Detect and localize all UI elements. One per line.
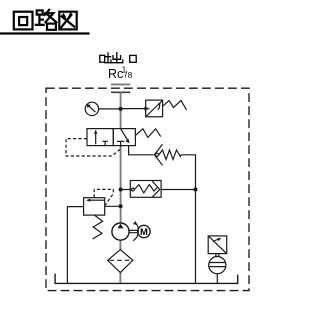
relief valve RV (left, box with left arrow and spring) <box>84 198 105 215</box>
wire: filter to tank <box>119 273 121 284</box>
wire: relief valve inlet from main line <box>105 205 121 207</box>
pilot dashed line of valve SV <box>66 139 121 156</box>
label Rc1/8 <box>108 66 133 82</box>
wire: main line to back-pressure valve <box>121 189 131 191</box>
pilot/vent dashed line of relief valve RV <box>94 189 113 205</box>
node: junction main line / back-pressure valve <box>119 188 123 192</box>
node: junction right drop line <box>194 188 198 192</box>
口 <box>130 55 137 62</box>
wire: gauge assembly to tank <box>216 274 218 284</box>
svg-text:M: M <box>140 227 148 238</box>
tank line <box>55 274 238 284</box>
relief valve V1 (top right, box with diagonal arrow) <box>146 100 163 117</box>
electric motor M1 <box>138 225 150 238</box>
図 <box>59 12 76 30</box>
level gauge LG (box with diagonal) <box>208 236 227 254</box>
node: junction relief inlet <box>119 204 123 208</box>
wire: back-pressure valve outlet to right drop line <box>161 189 195 191</box>
吐 <box>100 53 112 63</box>
left box: flow arrow up <box>95 132 97 145</box>
spring of valve SV (right side) <box>136 129 161 138</box>
thermometer TG (circle with two lines) <box>209 254 226 274</box>
spring of relief valve V1 <box>163 101 186 111</box>
spring of check valve CV1 <box>159 150 181 159</box>
right box: blocked port T <box>117 141 124 147</box>
title 回路図 (kanji drawn as strokes) <box>14 10 77 30</box>
wire: main pressure line (port to valve) <box>120 92 122 129</box>
spring of relief valve RV <box>93 215 103 239</box>
arrowhead into relief box <box>144 107 150 111</box>
wire: check valve to right drop line <box>181 155 195 284</box>
路 <box>36 10 57 30</box>
rotation direction arrow <box>133 223 138 241</box>
wire: pump to filter <box>119 240 121 250</box>
wire: valve outlet down-right to check valve <box>129 146 154 155</box>
wire: main line to relief box (top right) <box>121 108 145 110</box>
check valve CV1 (ball and seat with spring) <box>154 144 162 165</box>
wire: gauge to main line <box>99 108 121 110</box>
出 <box>111 53 123 63</box>
back-pressure check valve CV2 (boxed spring poppet) <box>130 181 161 198</box>
wire: relief valve drain to tank <box>67 207 83 284</box>
svg-text:8: 8 <box>128 71 133 80</box>
回 <box>14 12 33 30</box>
pump P1 (fixed displacement) <box>112 223 129 240</box>
right box: diagonal flow arrow <box>121 129 129 141</box>
valve body right box <box>113 129 135 146</box>
title underline <box>0 32 90 34</box>
valve body left box <box>87 129 113 146</box>
suction filter F1 <box>108 250 133 273</box>
enclosure dashed border <box>46 88 249 290</box>
discharge port Rc1/8 (double line symbol) <box>111 83 130 85</box>
solenoid unloading valve SV (2-position) <box>87 129 135 147</box>
label 吐出口 (kanji drawn as strokes) <box>100 53 136 63</box>
wire: main pressure line (valve to pump) <box>120 145 122 223</box>
pressure gauge G1 <box>85 102 98 115</box>
node: gauge junction <box>119 107 123 111</box>
left box: blocked port T <box>103 141 108 145</box>
drive shaft <box>129 230 138 232</box>
